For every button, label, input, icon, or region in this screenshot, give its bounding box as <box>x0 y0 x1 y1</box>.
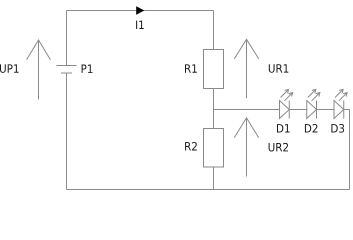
wire middle vertical upper (to R1) <box>213 11 215 50</box>
wire left vertical upper (to P1) <box>66 11 68 66</box>
wire middle vertical lower (R2 to bottom) <box>213 167 215 190</box>
label I1 <box>136 21 144 29</box>
label P1 <box>82 65 93 73</box>
wire middle vertical (R1 to R2, node junction) <box>213 89 215 129</box>
label R1 <box>185 64 197 72</box>
label UR1 <box>269 64 289 73</box>
wire bottom horizontal <box>67 189 350 191</box>
label R2 <box>185 142 197 151</box>
wire D3 cathode to right corner <box>344 109 349 111</box>
LED D1 <box>280 89 293 118</box>
battery P1 <box>57 66 77 74</box>
voltage arrow UR2 <box>234 118 259 177</box>
label D1 <box>277 124 290 132</box>
voltage arrow UR1 <box>234 39 258 98</box>
label UR2 <box>269 143 288 152</box>
wire D2 cathode to D3 anode <box>317 109 335 111</box>
voltage arrow UP1 <box>27 40 51 100</box>
LED D3 <box>334 89 347 118</box>
wire top horizontal <box>67 10 214 12</box>
wire D1 cathode to D2 anode <box>289 109 307 111</box>
resistor R1 <box>204 50 224 89</box>
LED D2 <box>307 89 320 118</box>
wire right vertical <box>349 110 351 190</box>
wire left vertical lower (P1 to bottom) <box>66 73 68 190</box>
resistor R2 <box>204 129 224 168</box>
label D2 <box>305 124 318 133</box>
current arrow I1 <box>136 6 144 14</box>
label D3 <box>331 124 344 133</box>
wire branch junction to D1 anode <box>214 109 280 111</box>
label UP1 <box>0 64 19 73</box>
